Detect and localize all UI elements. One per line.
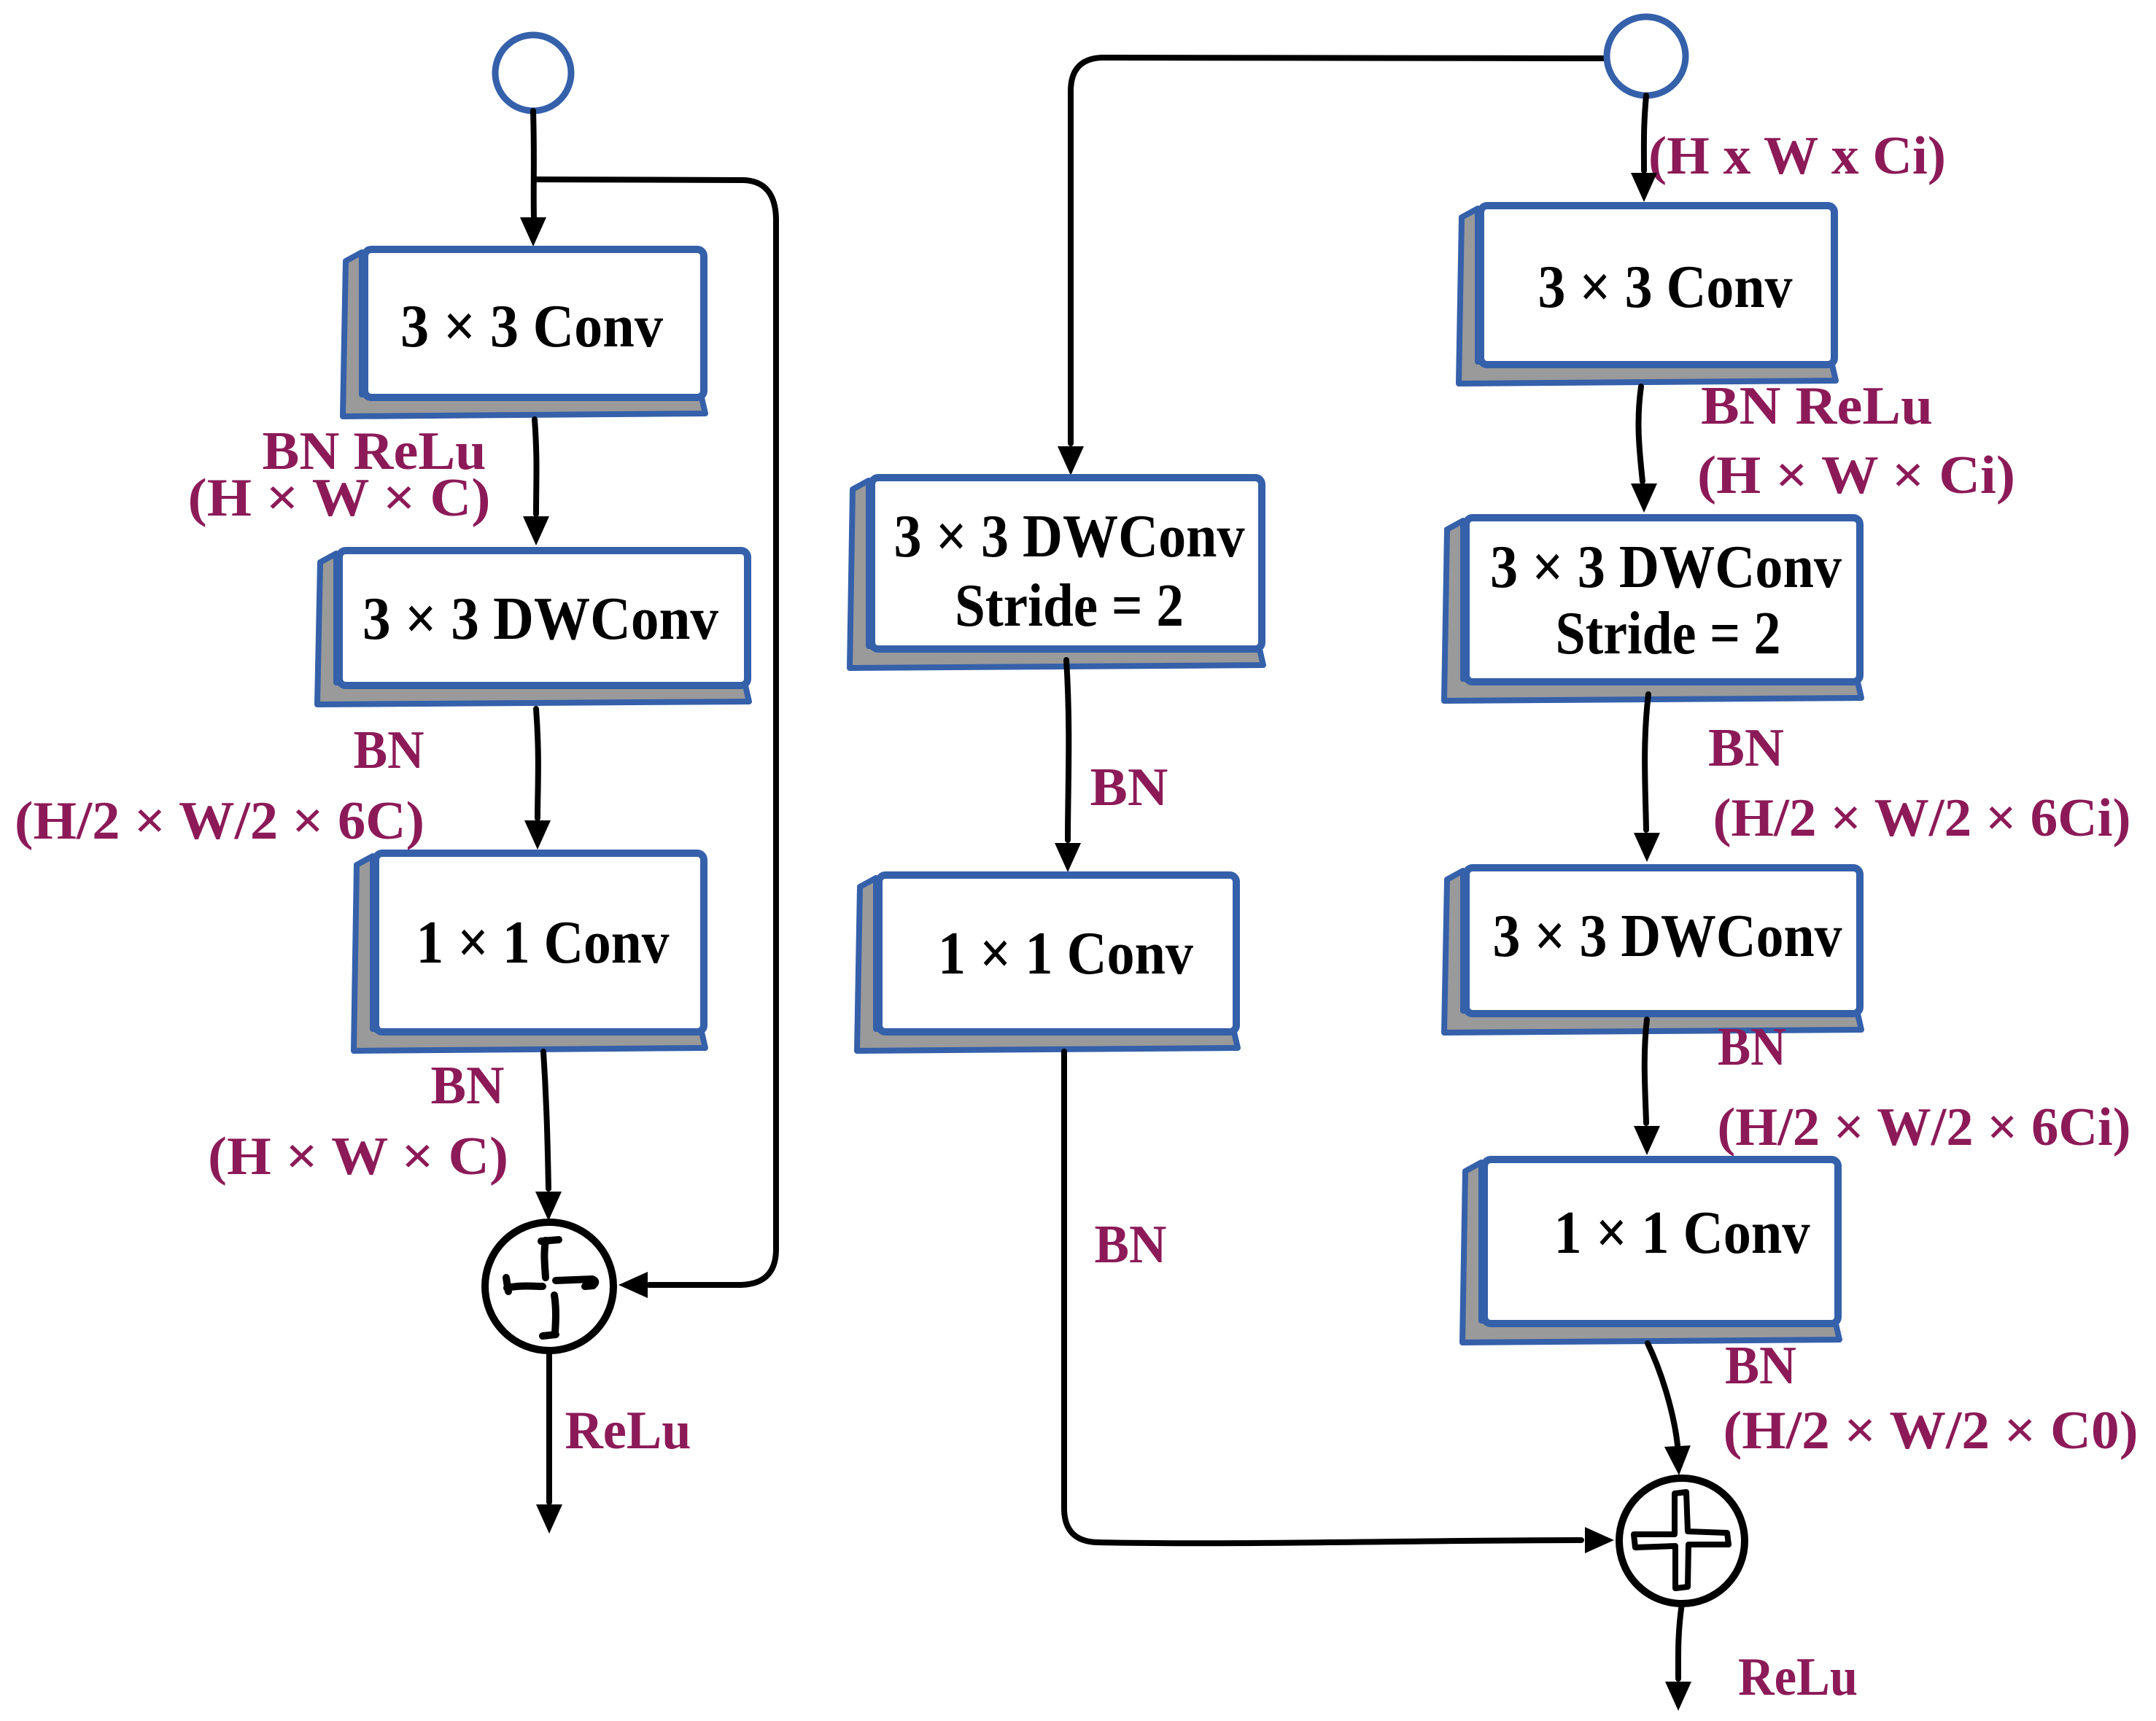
svg-text:BN: BN xyxy=(1725,1336,1796,1396)
svg-text:3 × 3 DWConv: 3 × 3 DWConv xyxy=(894,502,1245,570)
svg-text:BN: BN xyxy=(354,720,424,780)
svg-text:3 × 3 DWConv: 3 × 3 DWConv xyxy=(362,585,718,653)
label BN ReLu (right) xyxy=(1701,376,1933,436)
svg-text:BN: BN xyxy=(1718,1017,1786,1077)
svg-text:(H/2 × W/2 × 6C): (H/2 × W/2 × 6C) xyxy=(15,791,424,851)
svg-text:1 × 1 Conv: 1 × 1 Conv xyxy=(416,909,670,976)
block: 3x3 DWConv Stride 2 (middle) xyxy=(850,478,1263,668)
label BN (left bottom) xyxy=(431,1056,505,1116)
svg-text:BN: BN xyxy=(1708,718,1784,778)
block: 3x3 Conv (right) xyxy=(1459,206,1836,384)
label BN (right 1) xyxy=(1708,718,1784,778)
wire: 1x1 Conv to adder (left) xyxy=(535,1052,562,1221)
label (H/2 x W/2 x 6C) xyxy=(15,791,424,851)
svg-text:BN ReLu: BN ReLu xyxy=(1701,376,1933,436)
label (H/2 x W/2 x 6Ci) 2 xyxy=(1718,1098,2131,1157)
block: 3x3 DWConv (right) xyxy=(1444,868,1861,1033)
label (H x W x C) (left) xyxy=(188,468,491,528)
svg-text:(H × W × C): (H × W × C) xyxy=(188,468,491,528)
wire: left input to 3x3 Conv xyxy=(520,111,546,246)
svg-text:(H x W x Ci): (H x W x Ci) xyxy=(1648,126,1946,186)
svg-text:1 × 1 Conv: 1 × 1 Conv xyxy=(1554,1199,1810,1267)
wire: right input to 3x3 Conv xyxy=(1631,96,1657,202)
svg-text:1 × 1 Conv: 1 × 1 Conv xyxy=(938,920,1193,987)
label (H x W x C) second xyxy=(208,1127,508,1186)
label BN (middle top) xyxy=(1090,758,1168,817)
block: 1x1 Conv (right) xyxy=(1462,1159,1839,1343)
svg-text:Stride = 2: Stride = 2 xyxy=(955,572,1184,640)
svg-text:BN: BN xyxy=(431,1056,505,1116)
wire: adder output (right) xyxy=(1665,1604,1691,1711)
svg-text:(H × W × Ci): (H × W × Ci) xyxy=(1697,446,2015,505)
input node (right branch) xyxy=(1607,17,1686,96)
svg-text:ReLu: ReLu xyxy=(565,1401,691,1461)
svg-text:(H × W × C): (H × W × C) xyxy=(208,1127,508,1186)
wire: adder output (left) xyxy=(536,1351,562,1534)
svg-text:3 × 3 Conv: 3 × 3 Conv xyxy=(400,292,663,360)
svg-text:Stride = 2: Stride = 2 xyxy=(1556,599,1781,667)
wire: right 3x3 Conv to DWConv s2 xyxy=(1631,386,1657,513)
wire: 3x3 DWConv to 1x1 Conv (left) xyxy=(524,709,551,850)
wire: right DWConv s2 to DWConv xyxy=(1634,694,1660,862)
label (H x W x Ci) 2 xyxy=(1697,446,2015,505)
svg-text:(H/2 × W/2 × 6Ci): (H/2 × W/2 × 6Ci) xyxy=(1713,788,2131,848)
wire: right input to middle 3x3 DWConv s2 xyxy=(1058,58,1605,475)
label BN (right 2) xyxy=(1718,1017,1786,1077)
wire: left skip connection xyxy=(535,179,776,1298)
svg-text:BN: BN xyxy=(1090,758,1168,817)
wire: right DWConv to 1x1 Conv xyxy=(1634,1019,1660,1155)
label BN ReLu (left) xyxy=(263,421,486,481)
block: 3x3 DWConv Stride 2 (right) xyxy=(1444,518,1861,701)
svg-text:BN: BN xyxy=(1095,1215,1167,1275)
svg-text:ReLu: ReLu xyxy=(1738,1647,1858,1707)
svg-text:3 × 3 Conv: 3 × 3 Conv xyxy=(1538,253,1793,321)
svg-text:(H/2 × W/2 × 6Ci): (H/2 × W/2 × 6Ci) xyxy=(1718,1098,2131,1157)
block: 3x3 Conv (left) xyxy=(343,249,705,416)
wire: 3x3 Conv to 3x3 DWConv (left) xyxy=(523,419,549,545)
adder node (left) xyxy=(485,1222,613,1351)
wire: middle 1x1 Conv to adder (right) xyxy=(1064,1052,1614,1553)
block: 1x1 Conv (middle) xyxy=(857,875,1238,1051)
label (H/2 x W/2 x C0) xyxy=(1723,1401,2138,1461)
svg-text:(H/2 × W/2 × C0): (H/2 × W/2 × C0) xyxy=(1723,1401,2138,1461)
label ReLu (right) xyxy=(1738,1647,1858,1707)
label BN (right 3) xyxy=(1725,1336,1796,1396)
svg-text:3 × 3 DWConv: 3 × 3 DWConv xyxy=(1490,533,1842,601)
block: 1x1 Conv (left) xyxy=(354,853,705,1051)
block: 3x3 DWConv (left) xyxy=(317,551,749,704)
label (H/2 x W/2 x 6Ci) xyxy=(1713,788,2131,848)
wire: right 1x1 Conv to adder xyxy=(1648,1343,1691,1475)
wire: middle DWConv to 1x1 Conv xyxy=(1055,660,1081,872)
label ReLu (left) xyxy=(565,1401,691,1461)
svg-text:3 × 3 DWConv: 3 × 3 DWConv xyxy=(1493,902,1842,970)
label BN (middle bottom) xyxy=(1095,1215,1167,1275)
input node (left branch) xyxy=(495,35,571,111)
label (H x W x Ci) xyxy=(1648,126,1946,186)
adder node (right) xyxy=(1619,1478,1745,1604)
label BN (left mid) xyxy=(354,720,424,780)
